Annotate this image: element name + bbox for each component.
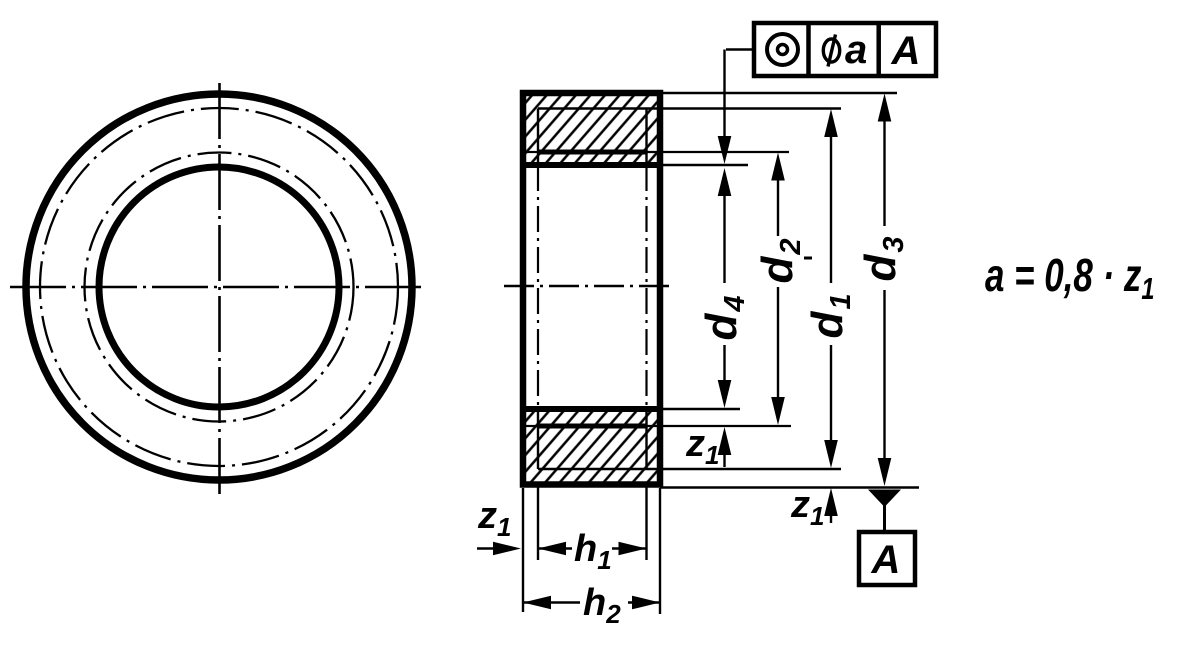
- recess right vertical dash-dot through bore: [645, 165, 647, 409]
- h2 dimension line: [523, 601, 580, 603]
- d1 dimension line: [830, 134, 832, 283]
- leader arrow down: [718, 136, 732, 164]
- svg-text:d2: d2: [753, 238, 807, 283]
- vertical center line: [218, 83, 221, 495]
- d1 bottom arrow: [824, 440, 838, 468]
- h1 left arrow: [538, 542, 566, 556]
- h2 right arrow: [632, 596, 660, 610]
- d2 top arrow: [771, 153, 785, 181]
- svg-text:z1: z1: [685, 423, 719, 470]
- d2 bottom arrow: [771, 397, 785, 425]
- recess top line (d1 level) with extension to d1 arrow: [538, 107, 841, 109]
- z1 lower arrow: [824, 488, 838, 516]
- bore top edge line (d4 level top): [523, 162, 660, 168]
- d3 bottom arrow: [878, 458, 892, 486]
- svg-text:z1: z1: [477, 495, 511, 542]
- datum triangle: [868, 490, 901, 508]
- section center line: [504, 285, 672, 288]
- z1 upper arrow: [718, 427, 732, 455]
- leader line from tolerance frame: [723, 50, 725, 140]
- frame divider 1: [806, 23, 811, 76]
- frame divider 2: [876, 23, 881, 76]
- svg-text:d4: d4: [697, 295, 751, 340]
- h1 dimension line: [538, 547, 572, 549]
- top edge extension to d3: [660, 92, 897, 94]
- h2 left arrow: [523, 596, 551, 610]
- svg-text:h2: h2: [583, 582, 621, 629]
- h1 right arrow: [619, 542, 647, 556]
- stray dash mark right of d2 label: [804, 257, 812, 260]
- left edge extension down to h2: [522, 488, 524, 612]
- tolerance value phi symbol: [823, 39, 839, 62]
- svg-text:A: A: [871, 538, 901, 582]
- hatched bottom band: [523, 409, 660, 485]
- hatched top band: [523, 93, 660, 165]
- datum stem: [883, 505, 886, 532]
- bore bottom extension to d4: [660, 408, 740, 410]
- svg-text:h1: h1: [574, 528, 612, 575]
- z1 left dimension line: [477, 547, 499, 549]
- d3 dimension line: [883, 119, 885, 226]
- svg-text:a: a: [845, 28, 867, 72]
- d2 level dash-dot margin left (top band): [526, 151, 538, 153]
- concentricity symbol inner circle: [778, 45, 788, 55]
- right edge extension down to h2: [659, 488, 661, 614]
- d2 dimension line: [777, 178, 779, 236]
- d3 top arrow: [878, 94, 892, 122]
- recess left vertical dash-dot through bore: [537, 165, 539, 409]
- recess right extension down to h1: [645, 486, 647, 560]
- d2 level extension to d2 arrow (bottom): [647, 425, 792, 427]
- d2 level extension to d2 arrow (top): [647, 151, 790, 153]
- svg-text:A: A: [891, 29, 921, 73]
- svg-text:a = 0,8 · z1: a = 0,8 · z1: [985, 249, 1154, 305]
- svg-text:z1: z1: [790, 484, 824, 531]
- svg-text:d3: d3: [856, 236, 910, 281]
- bore circle d4: [99, 167, 339, 407]
- recess left extension down to h1: [537, 486, 539, 560]
- dash-dot circle d2: [85, 153, 354, 422]
- recess left vertical (top band): [537, 109, 539, 166]
- lower recess thin line (d1 level bottom) with extension: [538, 468, 841, 470]
- frame box: [754, 23, 936, 76]
- recess left vertical (bottom band): [537, 409, 539, 469]
- svg-text:d1: d1: [803, 293, 857, 338]
- recess right vertical (top band): [645, 109, 647, 166]
- d4 dimension line: [723, 193, 725, 283]
- dash-dot circle d1: [40, 108, 398, 466]
- outer circle d3: [26, 94, 412, 480]
- d4 bottom arrow: [718, 380, 732, 408]
- d4 top arrow: [718, 168, 732, 196]
- datum box: [859, 532, 915, 585]
- recess right vertical (bottom band): [645, 409, 647, 469]
- d2 level dash-dot margin left (bottom band): [526, 425, 538, 427]
- bore top extension to d4: [660, 164, 748, 166]
- formula a = 0,8 * z1: [985, 249, 1154, 305]
- z1 left arrow: [493, 542, 521, 556]
- recess bottom thick line (d2 level top band): [538, 150, 647, 155]
- bore bottom edge line (d4 level bottom): [523, 406, 660, 412]
- section outline rectangle: [523, 93, 660, 485]
- bottom edge extension to d3 and datum: [660, 486, 919, 488]
- concentricity symbol outer circle: [767, 34, 798, 65]
- lower recess thick line (d2 level bottom band): [538, 424, 647, 429]
- frame leader horizontal: [726, 48, 754, 50]
- horizontal center line: [10, 286, 426, 289]
- d1 top arrow: [824, 109, 838, 137]
